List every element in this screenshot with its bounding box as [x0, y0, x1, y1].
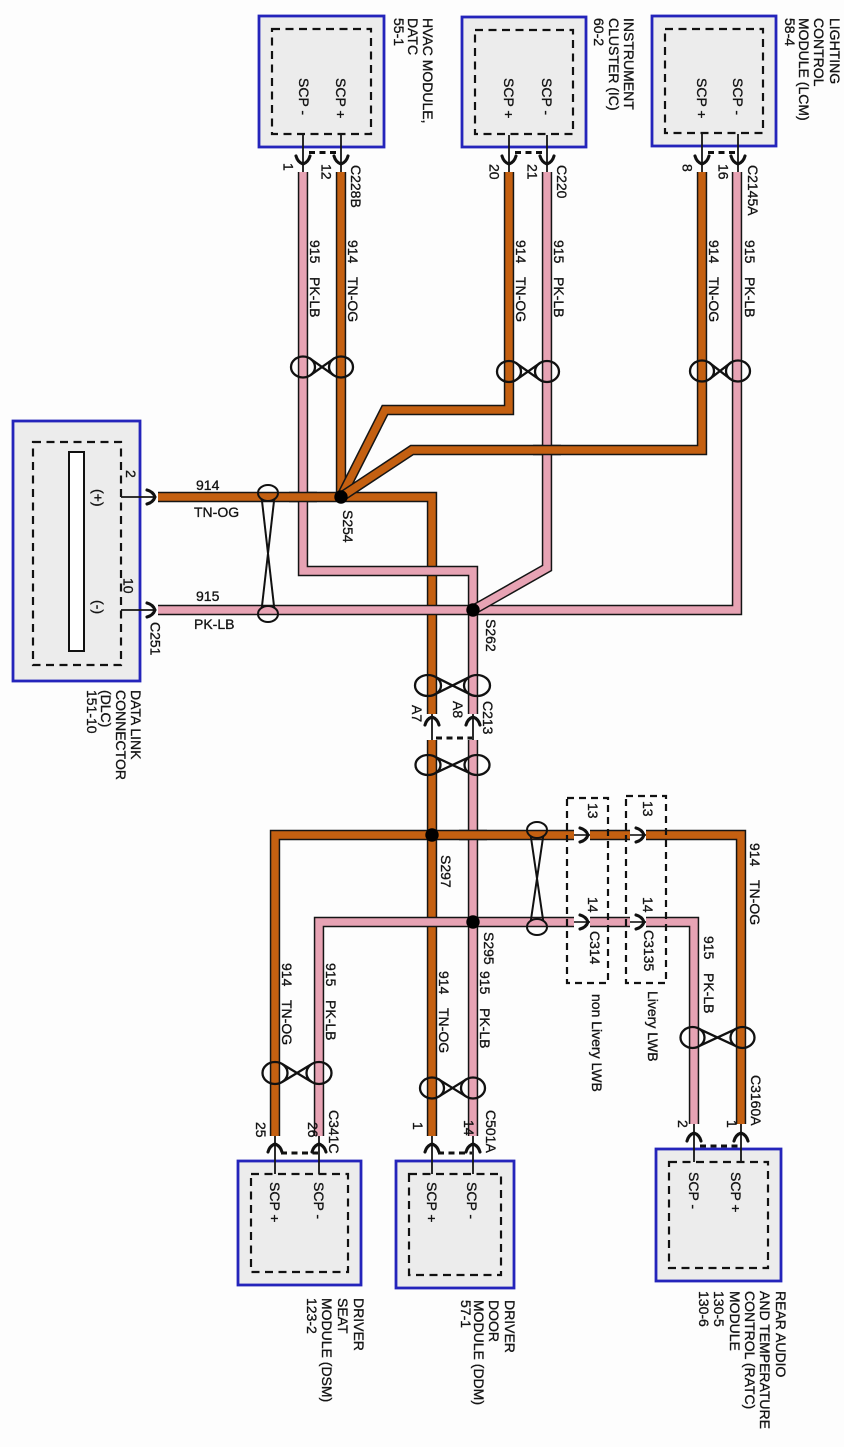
svg-text:PK-LB: PK-LB: [323, 1000, 339, 1040]
wire 914 S297 left branch to DSM: [275, 835, 432, 1136]
wire 915 S295 left branch to DSM: [319, 922, 473, 1136]
wire 914 below C213 through S297 to DDM: [427, 740, 437, 1136]
connector C251 pins at DLC: [121, 496, 156, 498]
svg-text:CONNECTOR: CONNECTOR: [113, 690, 129, 780]
connector C3135 arrows: [630, 834, 646, 836]
svg-text:AND TEMPERATURE: AND TEMPERATURE: [757, 1291, 773, 1429]
wire 914 between C314 and C3135: [590, 830, 630, 840]
svg-text:20: 20: [487, 164, 503, 180]
svg-text:PK-LB: PK-LB: [742, 277, 758, 317]
svg-text:SCP +: SCP +: [424, 1182, 440, 1223]
twisted pair symbol DSM: [263, 1062, 288, 1084]
DLC connector bar: [69, 452, 84, 651]
svg-text:CONTROL (RATC): CONTROL (RATC): [742, 1291, 758, 1409]
wire 915 to RATC: [646, 922, 694, 1124]
svg-text:TN-OG: TN-OG: [706, 277, 722, 322]
svg-text:SCP +: SCP +: [333, 78, 349, 119]
svg-text:914: 914: [436, 971, 452, 995]
connector C2145A pins at LCM: [701, 134, 703, 172]
svg-text:S295: S295: [481, 932, 497, 965]
svg-text:S297: S297: [438, 855, 454, 888]
svg-text:2: 2: [123, 470, 139, 478]
svg-text:915: 915: [307, 240, 323, 264]
svg-text:25: 25: [253, 1122, 269, 1138]
twisted pair symbol RATC: [681, 1027, 705, 1048]
wire 914 to RATC: [646, 835, 741, 1124]
svg-text:914: 914: [706, 240, 722, 264]
svg-text:57-1: 57-1: [458, 1300, 474, 1328]
svg-text:DRIVER: DRIVER: [351, 1298, 367, 1351]
svg-text:14: 14: [640, 897, 656, 913]
svg-text:21: 21: [525, 164, 541, 180]
svg-text:14: 14: [461, 1120, 477, 1136]
wire 915 IC diagonal to S262: [473, 172, 547, 610]
inline connector C314 dashed box (non Livery LWB): [567, 798, 608, 983]
module box RATC: [656, 1149, 781, 1281]
twisted pair symbol IC: [497, 361, 521, 382]
connector C501A pins at DDM: [431, 1136, 433, 1174]
svg-text:CONTROL: CONTROL: [811, 18, 827, 87]
svg-text:LIGHTING: LIGHTING: [827, 18, 843, 84]
svg-text:10: 10: [121, 578, 137, 594]
wire 915 between C314 and C3135: [590, 917, 630, 927]
svg-text:915: 915: [196, 588, 220, 604]
wire 914 crossing over 915 at S297 row: [459, 830, 487, 840]
twisted pair symbol DLC (vertical): [258, 485, 278, 501]
wire 914 crossing over 915 at HVAC drop: [289, 492, 317, 502]
twisted pair symbol below C213: [416, 755, 441, 775]
svg-text:914: 914: [196, 477, 220, 493]
wire 915 S295 right branch to C314: [473, 917, 574, 927]
svg-text:S254: S254: [340, 510, 356, 543]
connector C341C pins at DSM: [274, 1136, 276, 1174]
wire 915 HVAC drop to S262: [303, 172, 473, 610]
svg-text:914: 914: [345, 240, 361, 264]
svg-text:C220: C220: [554, 165, 570, 199]
splice S262: [466, 603, 479, 616]
svg-text:SCP -: SCP -: [464, 1182, 480, 1219]
svg-text:SCP +: SCP +: [728, 1172, 744, 1213]
svg-text:55-1: 55-1: [391, 18, 407, 46]
wire 914 TN-OG from DLC to S254 and down to C213: [158, 497, 432, 714]
svg-text:DRIVER: DRIVER: [502, 1300, 518, 1353]
svg-text:SEAT: SEAT: [335, 1298, 351, 1334]
svg-text:DATA LINK: DATA LINK: [128, 690, 144, 760]
module box DSM: [238, 1161, 361, 1285]
connector C314 arrows: [574, 834, 590, 836]
wire 914 IC branch diagonal into S254: [341, 172, 509, 497]
svg-text:C3135: C3135: [641, 930, 657, 971]
svg-text:MODULE: MODULE: [727, 1291, 743, 1351]
svg-text:SCP +: SCP +: [694, 78, 710, 119]
connector C3160A pins at RATC: [693, 1124, 695, 1162]
svg-text:8: 8: [680, 164, 696, 172]
svg-text:60-2: 60-2: [591, 18, 607, 46]
svg-text:151-10: 151-10: [84, 690, 100, 734]
svg-text:Livery LWB: Livery LWB: [645, 991, 661, 1062]
svg-text:DOOR: DOOR: [486, 1300, 502, 1342]
twisted pair symbol HVAC: [291, 357, 315, 378]
svg-text:130-5: 130-5: [711, 1291, 727, 1327]
svg-text:(-): (-): [91, 600, 107, 614]
wire 915 below C213 through S295 to DDM: [468, 740, 478, 1136]
svg-text:C341C: C341C: [326, 1110, 342, 1154]
svg-text:26: 26: [305, 1122, 321, 1138]
svg-text:1: 1: [410, 1122, 426, 1130]
svg-text:TN-OG: TN-OG: [194, 504, 239, 520]
twisted pair symbol above C213: [415, 675, 441, 696]
splice S297: [425, 828, 438, 841]
svg-text:MODULE (DSM): MODULE (DSM): [319, 1298, 335, 1402]
svg-text:HVAC MODULE,: HVAC MODULE,: [420, 18, 436, 124]
svg-text:REAR AUDIO: REAR AUDIO: [773, 1291, 789, 1377]
splice S254: [334, 490, 347, 503]
svg-text:915: 915: [323, 963, 339, 987]
svg-text:914: 914: [513, 240, 529, 264]
svg-text:A8: A8: [450, 701, 466, 718]
svg-text:SCP -: SCP -: [686, 1172, 702, 1209]
splice S295: [466, 915, 479, 928]
module box HVAC: [259, 16, 384, 147]
wire 914 crossing over 915 at IC drop: [533, 445, 561, 455]
svg-text:non Livery LWB: non Livery LWB: [589, 994, 605, 1092]
svg-text:C213: C213: [480, 701, 496, 735]
svg-text:CLUSTER (IC): CLUSTER (IC): [606, 18, 622, 111]
module box DDM: [396, 1161, 514, 1288]
wire 914 LCM branch diagonal into S254: [341, 172, 702, 497]
svg-text:13: 13: [585, 803, 601, 819]
svg-text:13: 13: [640, 801, 656, 817]
svg-text:C501A: C501A: [483, 1110, 499, 1153]
svg-text:914: 914: [279, 963, 295, 987]
twisted pair symbol right branch (vertical): [527, 822, 547, 838]
svg-text:TN-OG: TN-OG: [436, 1008, 452, 1053]
svg-text:S262: S262: [483, 619, 499, 652]
wire 914 S297 right branch to C314: [432, 830, 574, 840]
svg-text:(+): (+): [91, 489, 107, 507]
connector C228B pins at HVAC: [302, 134, 304, 172]
svg-text:INSTRUMENT: INSTRUMENT: [621, 18, 637, 110]
wire 915 PK-LB from DLC to LCM: [158, 172, 737, 610]
svg-text:C314: C314: [587, 931, 603, 965]
DLC box: [13, 421, 140, 681]
twisted pair symbol DDM: [420, 1078, 444, 1099]
svg-text:14: 14: [585, 897, 601, 913]
svg-text:A7: A7: [409, 705, 425, 722]
svg-text:16: 16: [716, 164, 732, 180]
svg-text:SCP +: SCP +: [501, 78, 517, 119]
svg-text:SCP -: SCP -: [539, 78, 555, 115]
svg-text:PK-LB: PK-LB: [701, 973, 717, 1013]
connector C213 inline: [431, 714, 433, 740]
svg-text:TN-OG: TN-OG: [345, 277, 361, 322]
svg-text:PK-LB: PK-LB: [194, 616, 234, 632]
module box LCM: [652, 16, 776, 146]
connector C220 pins at IC: [508, 135, 510, 172]
svg-text:2: 2: [675, 1120, 691, 1128]
svg-text:TN-OG: TN-OG: [747, 880, 763, 925]
svg-text:C3160A: C3160A: [748, 1075, 764, 1126]
svg-text:915: 915: [477, 971, 493, 995]
svg-text:PK-LB: PK-LB: [307, 277, 323, 317]
svg-text:915: 915: [551, 240, 567, 264]
svg-text:SCP -: SCP -: [730, 78, 746, 115]
svg-text:915: 915: [701, 936, 717, 960]
svg-text:1: 1: [724, 1120, 740, 1128]
wire 915 S262 down to C213: [468, 610, 478, 714]
twisted pair symbol LCM: [690, 361, 714, 382]
svg-text:914: 914: [747, 843, 763, 867]
svg-text:SCP -: SCP -: [296, 78, 312, 115]
svg-text:TN-OG: TN-OG: [279, 1000, 295, 1045]
svg-text:SCP +: SCP +: [267, 1182, 283, 1223]
svg-text:12: 12: [319, 164, 335, 180]
svg-text:123-2: 123-2: [304, 1298, 320, 1334]
module box IC: [462, 17, 586, 147]
svg-text:C251: C251: [148, 622, 164, 656]
svg-text:PK-LB: PK-LB: [551, 277, 567, 317]
svg-text:PK-LB: PK-LB: [477, 1008, 493, 1048]
svg-text:130-6: 130-6: [696, 1291, 712, 1327]
svg-text:58-4: 58-4: [782, 18, 798, 46]
svg-text:1: 1: [281, 163, 297, 171]
svg-text:TN-OG: TN-OG: [513, 277, 529, 322]
inline connector C3135 dashed box (Livery LWB): [626, 796, 666, 983]
svg-text:SCP -: SCP -: [311, 1182, 327, 1219]
svg-text:C2145A: C2145A: [745, 165, 761, 216]
svg-text:C228B: C228B: [348, 165, 364, 208]
wire 914 HVAC drop: [336, 172, 346, 497]
svg-text:915: 915: [742, 240, 758, 264]
